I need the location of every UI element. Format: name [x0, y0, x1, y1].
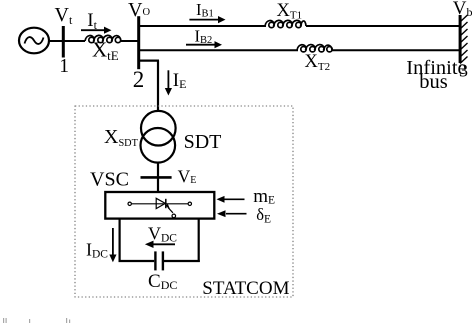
svg-text:STATCOM: STATCOM [202, 278, 289, 299]
svg-text:1: 1 [59, 56, 69, 77]
svg-text:2: 2 [133, 67, 145, 92]
svg-text:SDT: SDT [184, 131, 222, 153]
svg-text:bus: bus [419, 71, 448, 93]
svg-text:VSC: VSC [90, 169, 129, 191]
